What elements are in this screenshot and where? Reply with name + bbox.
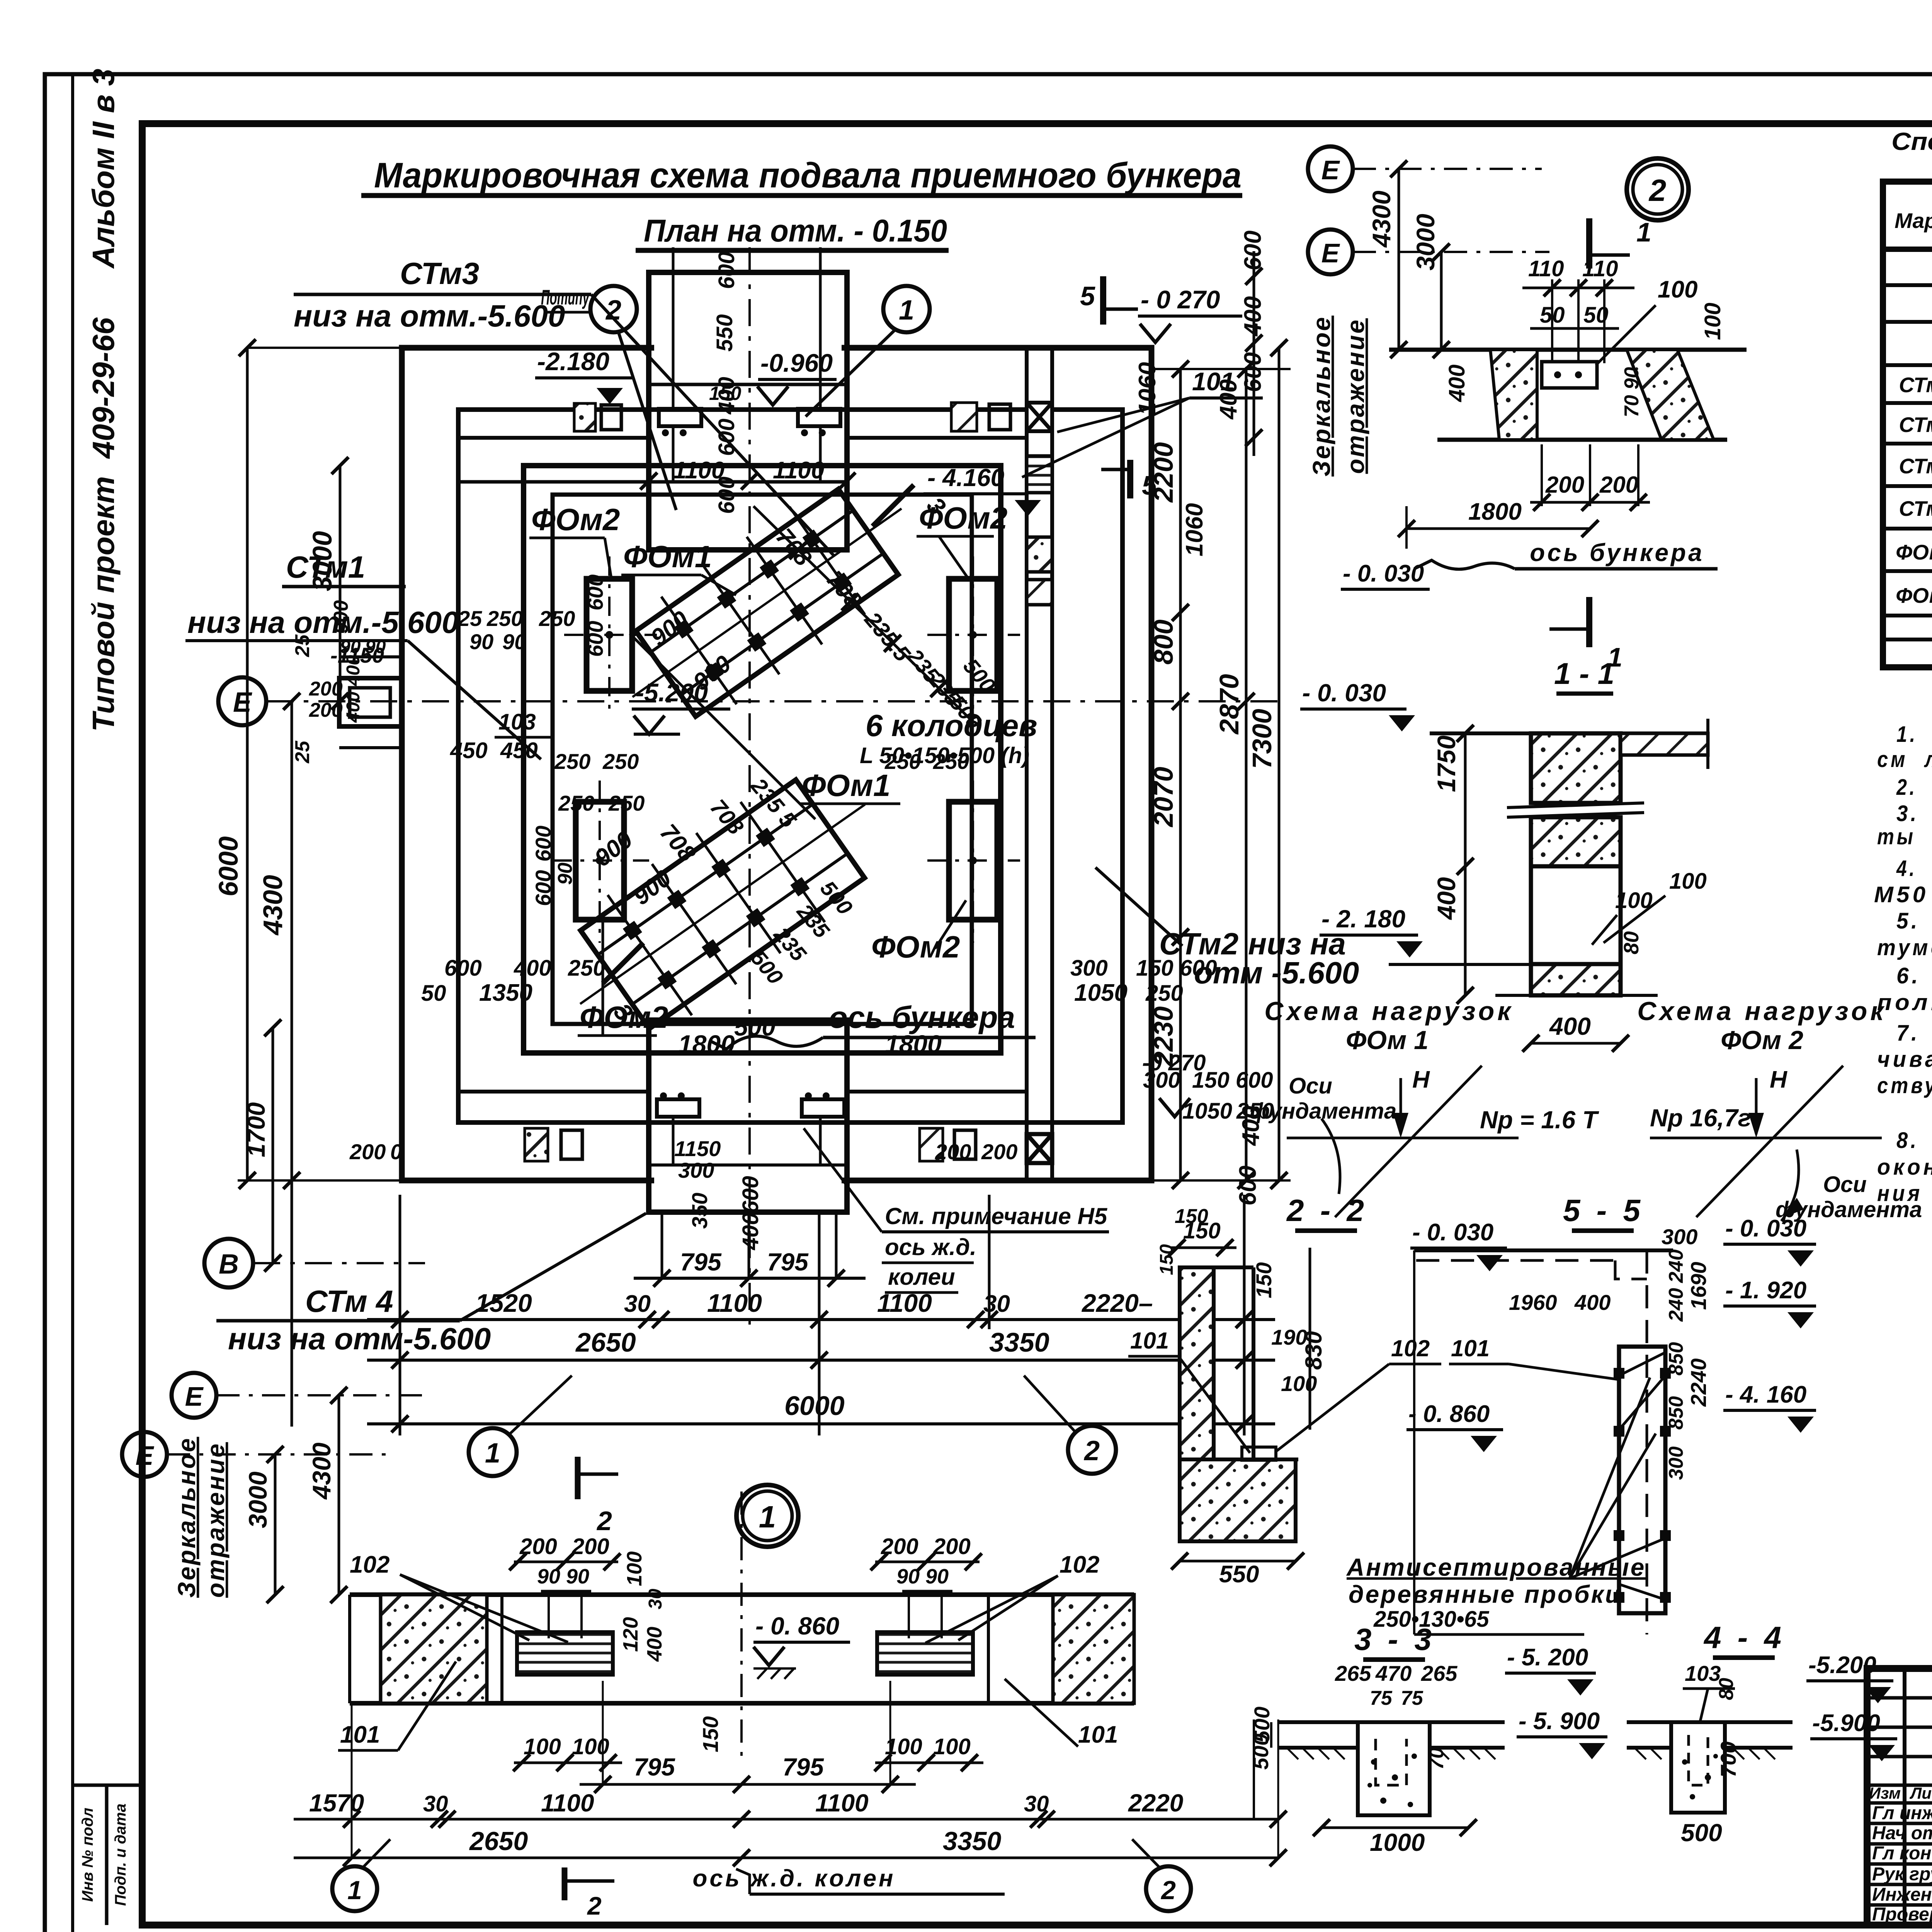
svg-text:400: 400 bbox=[643, 1627, 666, 1662]
svg-text:Гл констр: Гл констр bbox=[1872, 1843, 1932, 1864]
svg-text:150: 150 bbox=[1252, 1262, 1276, 1298]
svg-text:200: 200 bbox=[1599, 472, 1638, 498]
svg-text:1800: 1800 bbox=[678, 1030, 735, 1058]
svg-text:110: 110 bbox=[1528, 256, 1564, 281]
svg-text:75: 75 bbox=[1370, 1687, 1393, 1709]
svg-text:Провер: Провер bbox=[1872, 1904, 1932, 1925]
svg-text:550: 550 bbox=[712, 314, 737, 352]
svg-text:2: 2 bbox=[596, 1506, 612, 1536]
svg-text:1 - 1: 1 - 1 bbox=[1554, 656, 1614, 690]
svg-text:265: 265 bbox=[1421, 1661, 1458, 1685]
svg-text:470: 470 bbox=[1375, 1661, 1412, 1685]
svg-text:101: 101 bbox=[1130, 1328, 1169, 1354]
svg-text:низ на отм.-5.600: низ на отм.-5.600 bbox=[187, 605, 459, 639]
svg-text:Подп. и дата: Подп. и дата bbox=[112, 1804, 129, 1906]
svg-text:1100: 1100 bbox=[877, 1289, 932, 1317]
svg-text:1000: 1000 bbox=[1370, 1828, 1425, 1856]
svg-text:190: 190 bbox=[1271, 1325, 1307, 1349]
svg-text:ось бункера: ось бункера bbox=[1530, 539, 1704, 566]
svg-text:5: 5 bbox=[1080, 281, 1095, 311]
svg-text:795: 795 bbox=[634, 1753, 675, 1781]
svg-text:окончания замоноличивания по: окончания замоноличивания покрытия и пос… bbox=[1877, 1155, 1932, 1180]
svg-text:3350: 3350 bbox=[989, 1327, 1049, 1357]
svg-text:795: 795 bbox=[782, 1753, 824, 1781]
svg-text:200: 200 bbox=[309, 699, 343, 721]
svg-text:1. Маркировочную схему фунд: 1. Маркировочную схему фундаментов и фун… bbox=[1896, 722, 1932, 747]
svg-text:1100: 1100 bbox=[773, 457, 824, 484]
svg-text:300: 300 bbox=[678, 1158, 714, 1182]
svg-text:700: 700 bbox=[1716, 1742, 1740, 1777]
svg-text:350: 350 bbox=[687, 1193, 712, 1229]
svg-text:- 0 270: - 0 270 bbox=[1141, 285, 1220, 314]
svg-text:-0.960: -0.960 bbox=[760, 349, 833, 377]
svg-text:409-29-66: 409-29-66 bbox=[86, 317, 121, 459]
svg-text:100: 100 bbox=[933, 1734, 971, 1759]
svg-text:4300: 4300 bbox=[307, 1442, 336, 1500]
svg-text:отражение: отражение bbox=[1342, 318, 1369, 474]
svg-text:ось ж.д.: ось ж.д. bbox=[885, 1234, 976, 1260]
svg-text:30: 30 bbox=[624, 1291, 651, 1317]
svg-text:- 0. 030: - 0. 030 bbox=[1302, 679, 1386, 707]
svg-text:450: 450 bbox=[500, 738, 538, 763]
svg-text:150: 150 bbox=[1156, 1244, 1177, 1275]
svg-text:Рук груп: Рук груп bbox=[1872, 1864, 1932, 1884]
svg-text:Оси: Оси bbox=[1289, 1073, 1332, 1099]
svg-text:400: 400 bbox=[514, 956, 551, 981]
svg-text:250: 250 bbox=[486, 606, 523, 631]
svg-text:600: 600 bbox=[583, 621, 607, 657]
svg-text:120: 120 bbox=[619, 1617, 642, 1652]
svg-text:900: 900 bbox=[330, 600, 352, 634]
svg-text:102: 102 bbox=[350, 1551, 389, 1578]
svg-text:300: 300 bbox=[1070, 956, 1108, 981]
svg-text:тумом за 2 раза по холодно: тумом за 2 раза по холодной битумной гру… bbox=[1877, 935, 1932, 960]
svg-text:25: 25 bbox=[291, 740, 314, 764]
svg-text:Е: Е bbox=[185, 1381, 204, 1412]
svg-text:см лист КЖ-4: см лист КЖ-4 bbox=[1877, 747, 1932, 772]
svg-text:- 0. 860: - 0. 860 bbox=[1408, 1401, 1490, 1427]
svg-text:90: 90 bbox=[340, 637, 361, 657]
svg-text:2650: 2650 bbox=[469, 1827, 528, 1856]
svg-text:100: 100 bbox=[1669, 869, 1707, 894]
svg-text:400: 400 bbox=[1444, 364, 1469, 402]
svg-text:25: 25 bbox=[457, 606, 482, 631]
svg-text:600: 600 bbox=[531, 826, 555, 862]
svg-text:СТм4: СТм4 bbox=[1899, 497, 1932, 520]
svg-text:ФОм 1: ФОм 1 bbox=[1346, 1026, 1429, 1055]
svg-text:400: 400 bbox=[343, 692, 364, 723]
svg-text:2 - 2: 2 - 2 bbox=[1286, 1193, 1368, 1228]
svg-text:СТм2: СТм2 bbox=[1899, 413, 1932, 437]
svg-text:М50 толщиной 100 мм.: М50 толщиной 100 мм. bbox=[1874, 882, 1932, 907]
svg-text:1050: 1050 bbox=[1074, 980, 1128, 1006]
svg-text:Н: Н bbox=[1412, 1066, 1430, 1093]
svg-text:1: 1 bbox=[485, 1438, 500, 1469]
svg-text:7300: 7300 bbox=[1247, 709, 1277, 769]
svg-text:400: 400 bbox=[1215, 379, 1242, 420]
svg-text:1: 1 bbox=[1636, 217, 1651, 247]
svg-text:450: 450 bbox=[450, 738, 488, 763]
svg-text:250: 250 bbox=[602, 749, 639, 774]
svg-text:ось ж.д. колен: ось ж.д. колен bbox=[692, 1865, 895, 1892]
svg-text:ось бункера: ось бункера bbox=[829, 1000, 1015, 1034]
svg-text:-2.180: -2.180 bbox=[537, 347, 609, 376]
svg-text:ФОм2: ФОм2 bbox=[531, 502, 620, 537]
svg-text:200: 200 bbox=[309, 678, 343, 700]
svg-text:отражение: отражение bbox=[202, 1442, 230, 1598]
svg-text:3350: 3350 bbox=[943, 1827, 1001, 1856]
svg-text:низ на отм-5.600: низ на отм-5.600 bbox=[228, 1321, 491, 1356]
svg-text:500: 500 bbox=[1248, 1734, 1273, 1770]
svg-text:1: 1 bbox=[759, 1500, 776, 1534]
svg-text:7. Пол является конструктив: 7. Пол является конструктивным элементом… bbox=[1896, 1020, 1932, 1046]
svg-text:Инжен: Инжен bbox=[1872, 1884, 1932, 1905]
svg-text:30: 30 bbox=[645, 1588, 666, 1609]
svg-text:1750: 1750 bbox=[1432, 735, 1461, 792]
svg-text:ФОм2: ФОм2 bbox=[871, 930, 960, 964]
svg-text:В: В bbox=[219, 1249, 239, 1280]
svg-text:3. Сборочные единицы и рас: 3. Сборочные единицы и расход материалов… bbox=[1896, 801, 1932, 826]
svg-text:240: 240 bbox=[1665, 1249, 1687, 1283]
svg-text:250: 250 bbox=[608, 791, 645, 815]
svg-text:400: 400 bbox=[1432, 877, 1461, 920]
svg-text:2870: 2870 bbox=[1214, 674, 1244, 735]
svg-text:2240: 2240 bbox=[1686, 1358, 1711, 1407]
svg-text:25: 25 bbox=[291, 634, 314, 657]
svg-text:деревянные пробки: деревянные пробки bbox=[1349, 1580, 1622, 1608]
svg-text:300: 300 bbox=[1665, 1446, 1687, 1480]
svg-text:500: 500 bbox=[734, 1013, 776, 1041]
svg-text:600: 600 bbox=[714, 418, 739, 456]
svg-text:90: 90 bbox=[925, 1565, 949, 1588]
svg-text:250: 250 bbox=[884, 749, 921, 774]
svg-text:Марка: Марка bbox=[1895, 209, 1932, 233]
svg-text:1100: 1100 bbox=[673, 457, 724, 484]
svg-text:5 - 5: 5 - 5 bbox=[1563, 1193, 1644, 1228]
svg-text:75: 75 bbox=[1401, 1687, 1423, 1709]
svg-text:600: 600 bbox=[714, 252, 739, 289]
svg-text:СТм1: СТм1 bbox=[1899, 373, 1932, 397]
svg-text:500: 500 bbox=[1681, 1819, 1722, 1847]
svg-text:- 1. 920: - 1. 920 bbox=[1725, 1277, 1806, 1304]
svg-text:- 0. 030: - 0. 030 bbox=[1343, 560, 1424, 587]
svg-text:Схема нагрузок: Схема нагрузок bbox=[1264, 997, 1514, 1026]
svg-text:Зеркальное: Зеркальное bbox=[173, 1437, 201, 1598]
svg-text:СТм 4: СТм 4 bbox=[305, 1284, 393, 1318]
svg-text:СТм3: СТм3 bbox=[1899, 454, 1932, 478]
svg-text:110: 110 bbox=[1582, 256, 1618, 281]
svg-text:Н: Н bbox=[1770, 1066, 1787, 1093]
svg-text:2: 2 bbox=[605, 295, 621, 326]
svg-text:СТм3: СТм3 bbox=[400, 256, 479, 291]
svg-text:2. Перекрытие подвала прием: 2. Перекрытие подвала приемного бункера … bbox=[1896, 775, 1932, 800]
svg-text:Лист: Лист bbox=[1909, 1784, 1932, 1802]
svg-text:2200: 2200 bbox=[1148, 442, 1179, 503]
svg-text:600: 600 bbox=[738, 1176, 763, 1213]
svg-text:100: 100 bbox=[623, 1551, 646, 1586]
svg-text:Е: Е bbox=[233, 687, 252, 718]
svg-text:100: 100 bbox=[1281, 1371, 1317, 1396]
svg-text:400: 400 bbox=[714, 377, 739, 415]
svg-text:3000: 3000 bbox=[307, 531, 337, 591]
svg-text:30: 30 bbox=[983, 1291, 1010, 1317]
svg-text:6000: 6000 bbox=[784, 1391, 845, 1421]
svg-text:полнить битумом.: полнить битумом. bbox=[1877, 990, 1932, 1015]
svg-text:1690: 1690 bbox=[1686, 1262, 1711, 1310]
svg-text:См. примечание Н5: См. примечание Н5 bbox=[885, 1203, 1108, 1229]
svg-text:3000: 3000 bbox=[243, 1471, 272, 1528]
svg-text:Nр = 1.6 Т: Nр = 1.6 Т bbox=[1480, 1106, 1599, 1134]
svg-text:250: 250 bbox=[933, 749, 969, 774]
svg-text:2: 2 bbox=[1083, 1435, 1100, 1466]
svg-text:50: 50 bbox=[1583, 303, 1609, 328]
svg-text:200: 200 bbox=[933, 1534, 971, 1559]
svg-text:4300: 4300 bbox=[1367, 190, 1396, 248]
svg-text:400: 400 bbox=[738, 1213, 763, 1250]
svg-text:- 0. 030: - 0. 030 bbox=[1725, 1215, 1806, 1242]
svg-text:1050: 1050 bbox=[1182, 1099, 1232, 1124]
svg-text:- 4.160: - 4.160 bbox=[927, 464, 1004, 492]
svg-text:- 0. 030: - 0. 030 bbox=[1412, 1219, 1493, 1246]
svg-text:Альбом II в 3: Альбом II в 3 bbox=[86, 69, 121, 269]
svg-text:240: 240 bbox=[1665, 1288, 1687, 1322]
svg-text:ФОм 2: ФОм 2 bbox=[1721, 1026, 1803, 1055]
svg-text:Потипу: Потипу bbox=[541, 285, 590, 309]
svg-text:фундамента: фундамента bbox=[1250, 1099, 1396, 1124]
svg-text:2220: 2220 bbox=[1128, 1789, 1183, 1817]
svg-text:150: 150 bbox=[698, 1716, 723, 1752]
svg-text:1: 1 bbox=[899, 295, 914, 326]
svg-text:Антисептированные: Антисептированные bbox=[1346, 1553, 1646, 1581]
svg-text:0: 0 bbox=[390, 1139, 402, 1164]
svg-text:План на отм. - 0.150: План на отм. - 0.150 bbox=[644, 213, 947, 248]
svg-text:4 - 4: 4 - 4 bbox=[1703, 1620, 1785, 1655]
svg-text:ФОм1: ФОм1 bbox=[802, 768, 890, 803]
svg-text:80: 80 bbox=[1620, 931, 1643, 954]
svg-text:150: 150 bbox=[1175, 1205, 1208, 1228]
svg-text:90: 90 bbox=[365, 637, 386, 657]
svg-text:Е: Е bbox=[1321, 155, 1340, 185]
svg-text:отм -5.600: отм -5.600 bbox=[1194, 956, 1359, 990]
svg-text:8. Засыпку пазух котлована: 8. Засыпку пазух котлована грунтом произ… bbox=[1896, 1128, 1932, 1153]
svg-text:- 0. 860: - 0. 860 bbox=[755, 1612, 839, 1640]
svg-text:ФОм1: ФОм1 bbox=[623, 539, 712, 574]
svg-text:90: 90 bbox=[502, 629, 526, 654]
svg-text:Маркировочная схема подвала: Маркировочная схема подвала приемного бу… bbox=[374, 156, 1242, 195]
svg-text:300: 300 bbox=[1662, 1225, 1697, 1249]
svg-text:Гл инж пр: Гл инж пр bbox=[1872, 1803, 1932, 1823]
svg-text:2: 2 bbox=[1160, 1876, 1176, 1905]
svg-text:ты ФОм 1 и ФОм 2 включены: ты ФОм 1 и ФОм 2 включены в спецификацию… bbox=[1877, 824, 1932, 849]
svg-text:102: 102 bbox=[1391, 1335, 1430, 1361]
svg-text:Спецификация элементов к марки: Спецификация элементов к маркировочной с… bbox=[1891, 128, 1932, 155]
svg-text:250: 250 bbox=[539, 606, 575, 631]
svg-text:1700: 1700 bbox=[242, 1102, 270, 1157]
svg-text:4300: 4300 bbox=[258, 875, 288, 936]
svg-text:3000: 3000 bbox=[1411, 214, 1440, 270]
svg-text:550: 550 bbox=[1219, 1561, 1259, 1588]
svg-text:200: 200 bbox=[981, 1139, 1017, 1164]
svg-text:800: 800 bbox=[1148, 619, 1179, 665]
svg-text:101: 101 bbox=[1078, 1721, 1118, 1748]
svg-text:- 5. 900: - 5. 900 bbox=[1519, 1708, 1600, 1735]
svg-text:колеи: колеи bbox=[888, 1264, 955, 1290]
svg-text:Изм: Изм bbox=[1869, 1784, 1901, 1802]
svg-text:2650: 2650 bbox=[575, 1327, 636, 1357]
svg-text:Нач отд: Нач отд bbox=[1872, 1823, 1932, 1844]
svg-text:1100: 1100 bbox=[541, 1789, 594, 1817]
svg-text:4. Подготовку под стены по: 4. Подготовку под стены подвала выполнит… bbox=[1896, 856, 1932, 881]
svg-text:1060: 1060 bbox=[1181, 503, 1208, 556]
svg-text:400: 400 bbox=[1574, 1290, 1611, 1315]
svg-text:Nр 16,7г: Nр 16,7г bbox=[1650, 1104, 1751, 1132]
svg-text:- 2. 180: - 2. 180 bbox=[1321, 905, 1405, 933]
svg-text:850: 850 bbox=[1665, 1342, 1687, 1376]
svg-text:708: 708 bbox=[705, 795, 748, 840]
svg-text:6. Деформационные швы между: 6. Деформационные швы между стенами подв… bbox=[1896, 963, 1932, 988]
svg-text:70 90: 70 90 bbox=[1621, 367, 1643, 417]
svg-text:1060: 1060 bbox=[1134, 362, 1161, 415]
svg-text:Схема нагрузок: Схема нагрузок bbox=[1637, 997, 1886, 1026]
svg-text:1100: 1100 bbox=[707, 1289, 762, 1317]
svg-text:200: 200 bbox=[571, 1534, 609, 1559]
svg-text:ствующих на стены.: ствующих на стены. bbox=[1877, 1073, 1932, 1098]
svg-text:ФОм1: ФОм1 bbox=[1896, 540, 1932, 564]
svg-text:- 5. 200: - 5. 200 bbox=[1507, 1644, 1588, 1671]
svg-text:2: 2 bbox=[1648, 173, 1667, 207]
svg-text:Оси: Оси bbox=[1823, 1172, 1867, 1197]
svg-text:400: 400 bbox=[1549, 1012, 1591, 1040]
svg-text:102: 102 bbox=[1060, 1551, 1099, 1578]
svg-text:1800: 1800 bbox=[1468, 498, 1522, 525]
svg-text:101: 101 bbox=[340, 1721, 380, 1748]
svg-text:1800: 1800 bbox=[885, 1030, 942, 1058]
svg-text:90: 90 bbox=[469, 629, 493, 654]
svg-text:3 - 3: 3 - 3 bbox=[1354, 1622, 1435, 1656]
svg-text:90: 90 bbox=[896, 1565, 920, 1588]
svg-text:чивающим восприятие горизонт: чивающим восприятие горизонтальных нагру… bbox=[1877, 1047, 1932, 1072]
svg-text:100: 100 bbox=[1700, 303, 1725, 340]
svg-text:50: 50 bbox=[1540, 303, 1565, 328]
svg-text:90: 90 bbox=[566, 1565, 589, 1588]
svg-text:1520: 1520 bbox=[475, 1289, 532, 1317]
svg-text:600: 600 bbox=[1235, 1166, 1261, 1206]
svg-text:250: 250 bbox=[554, 749, 590, 774]
svg-text:250: 250 bbox=[558, 791, 594, 815]
svg-text:2220–: 2220– bbox=[1081, 1289, 1153, 1317]
svg-text:Типовой проект: Типовой проект bbox=[86, 476, 121, 731]
svg-text:200: 200 bbox=[1545, 472, 1584, 498]
svg-text:1150: 1150 bbox=[674, 1136, 721, 1161]
svg-text:-0 270: -0 270 bbox=[1142, 1050, 1206, 1075]
svg-text:низ на отм.-5.600: низ на отм.-5.600 bbox=[294, 299, 565, 333]
svg-text:- 4. 160: - 4. 160 bbox=[1725, 1381, 1806, 1408]
svg-text:900: 900 bbox=[590, 826, 638, 872]
svg-text:250: 250 bbox=[1145, 981, 1183, 1006]
svg-text:101: 101 bbox=[1451, 1335, 1490, 1361]
svg-text:200: 200 bbox=[935, 1139, 971, 1164]
svg-text:2: 2 bbox=[587, 1891, 602, 1920]
svg-text:50: 50 bbox=[421, 981, 446, 1006]
svg-text:850: 850 bbox=[1665, 1396, 1687, 1430]
svg-text:6000: 6000 bbox=[213, 836, 243, 896]
svg-text:Инв № подл: Инв № подл bbox=[79, 1808, 96, 1902]
svg-text:150 600: 150 600 bbox=[1136, 956, 1217, 981]
svg-text:1: 1 bbox=[347, 1876, 362, 1905]
svg-text:600: 600 bbox=[531, 870, 555, 906]
svg-text:708: 708 bbox=[655, 819, 701, 867]
svg-text:100: 100 bbox=[1658, 276, 1697, 303]
svg-text:90: 90 bbox=[554, 862, 577, 885]
svg-text:1960: 1960 bbox=[1509, 1290, 1557, 1315]
svg-text:Зеркальное: Зеркальное bbox=[1308, 316, 1335, 477]
svg-text:400: 400 bbox=[343, 655, 364, 686]
svg-text:900: 900 bbox=[646, 606, 694, 651]
svg-text:ФОм2: ФОм2 bbox=[1896, 583, 1932, 607]
svg-text:1100: 1100 bbox=[815, 1789, 869, 1817]
svg-text:265: 265 bbox=[1335, 1661, 1371, 1685]
svg-text:ния бетоном пола 70 % прое: ния бетоном пола 70 % проектной прочност… bbox=[1877, 1181, 1932, 1206]
svg-text:600: 600 bbox=[444, 956, 482, 981]
svg-text:103: 103 bbox=[498, 709, 536, 735]
svg-text:80: 80 bbox=[1715, 1678, 1738, 1700]
svg-text:70: 70 bbox=[1425, 1747, 1448, 1770]
svg-text:600: 600 bbox=[583, 575, 607, 611]
svg-text:250: 250 bbox=[568, 956, 605, 981]
svg-text:1350: 1350 bbox=[479, 980, 532, 1006]
svg-text:2070: 2070 bbox=[1148, 767, 1179, 828]
svg-text:Е: Е bbox=[136, 1440, 155, 1471]
svg-text:Е: Е bbox=[1321, 238, 1340, 268]
svg-text:795: 795 bbox=[767, 1248, 809, 1276]
svg-text:200: 200 bbox=[349, 1139, 386, 1164]
svg-text:795: 795 bbox=[680, 1248, 722, 1276]
svg-text:5. Наружные поверхности сте: 5. Наружные поверхности стен обмазать го… bbox=[1896, 908, 1932, 934]
